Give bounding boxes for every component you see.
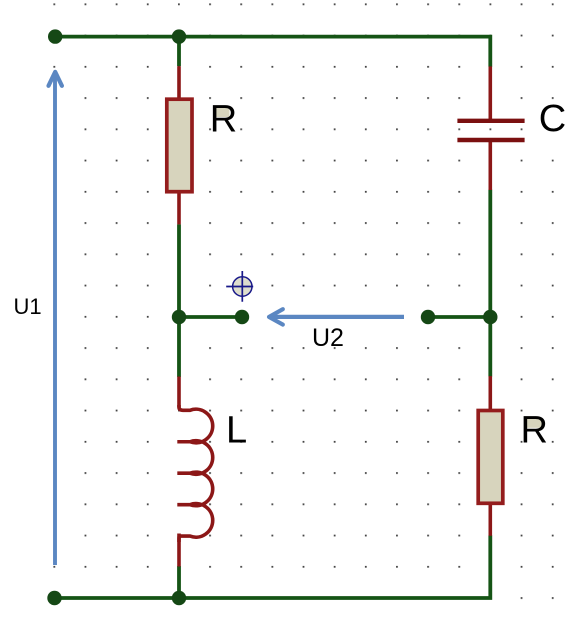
svg-text:L: L: [226, 410, 247, 452]
lead resistor R1 bottom: [177, 192, 181, 224]
node bottom-left: [47, 591, 61, 605]
lead capacitor C bottom: [488, 141, 492, 190]
node mid-left: [172, 310, 186, 324]
svg-text:R: R: [210, 99, 237, 141]
node marker crosshair: [226, 271, 253, 302]
resistor R2 body: [478, 411, 503, 504]
wire stub right node: [428, 315, 490, 319]
wire bottom horizontal with right corner rise: [55, 535, 491, 598]
wire middle vertical between R and node: [177, 224, 181, 317]
wire top horizontal with right corner drop: [55, 37, 490, 67]
capacitor C plates: [457, 121, 524, 140]
label C value C: [539, 98, 566, 140]
wire stub left node: [179, 315, 242, 319]
label U2: [312, 324, 344, 352]
inductor L coil: [177, 405, 212, 542]
lead capacitor C top: [488, 66, 492, 120]
wire middle vertical upper green: [177, 37, 181, 67]
node top-middle: [172, 29, 186, 43]
wire middle bottom green: [177, 566, 181, 598]
label L value L: [226, 410, 247, 452]
svg-text:U1: U1: [14, 294, 42, 319]
node mid-right-a: [421, 310, 435, 324]
wire right vertical mid green: [488, 190, 492, 377]
node mid-stub: [235, 310, 249, 324]
lead resistor R1 top: [177, 66, 181, 99]
svg-text:C: C: [539, 98, 566, 140]
lead inductor L top: [177, 377, 181, 408]
lead resistor R2 top: [488, 376, 492, 410]
label R1 value R: [210, 99, 237, 141]
svg-text:R: R: [521, 409, 548, 451]
node mid-right-b: [483, 310, 497, 324]
voltage arrow U2: [269, 309, 404, 324]
resistor R1 body: [167, 99, 192, 192]
label R2 value R: [521, 409, 548, 451]
label U1: [14, 294, 42, 319]
lead inductor L bottom: [177, 534, 181, 567]
wire middle vertical node to inductor: [177, 317, 181, 377]
svg-text:U2: U2: [312, 324, 344, 352]
voltage arrow U1: [49, 72, 62, 565]
node bottom-middle: [172, 591, 186, 605]
lead resistor R2 bottom: [488, 504, 492, 536]
node top-left: [48, 29, 62, 43]
